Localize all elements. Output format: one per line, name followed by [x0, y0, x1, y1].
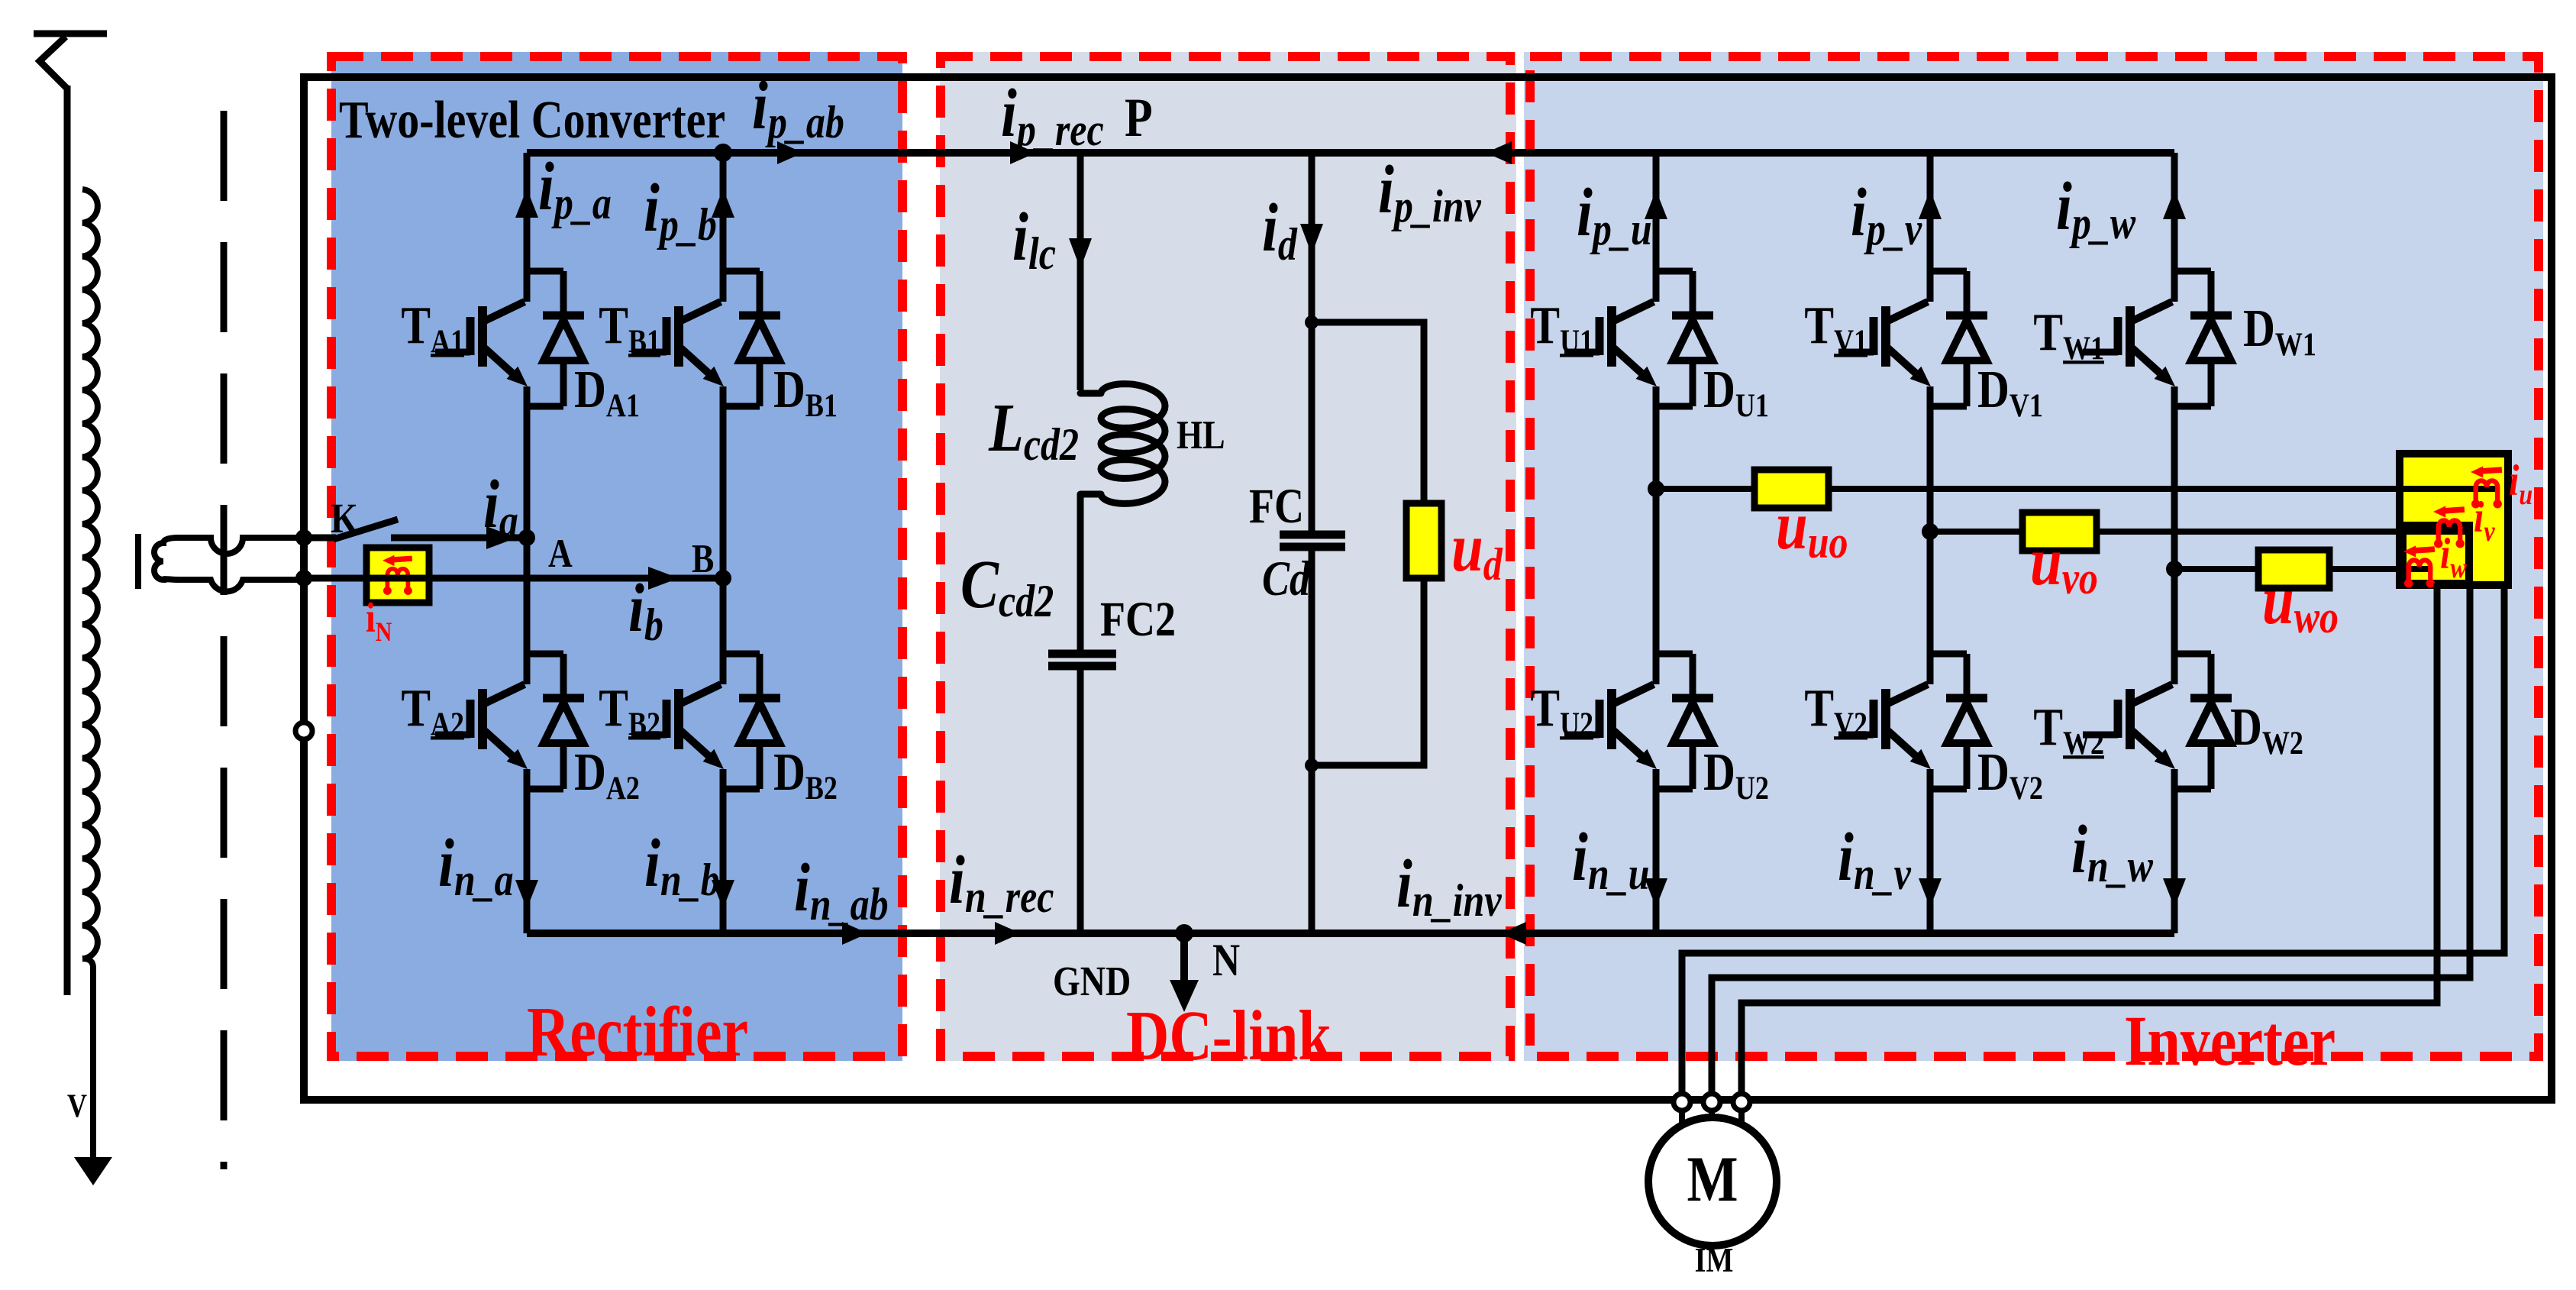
overhead contact wire — [34, 31, 107, 37]
leg B lower wire — [720, 769, 727, 933]
motor wire u — [1682, 585, 2504, 1094]
leg U upper wire — [1653, 153, 1660, 302]
svg-text:FC: FC — [1249, 478, 1304, 533]
leg U middle wire — [1653, 386, 1660, 684]
motor lead w — [1738, 1111, 1745, 1130]
current sensor glyph — [2471, 466, 2502, 508]
diode DW1 — [2174, 271, 2232, 406]
diode DB1 — [723, 271, 780, 406]
leg A middle wire — [524, 386, 531, 684]
leg B middle wire — [720, 386, 727, 684]
motor terminal u — [1674, 1094, 1690, 1111]
motor lead u — [1679, 1111, 1685, 1130]
transistor TV1 — [1838, 302, 1931, 386]
leg V upper wire — [1927, 153, 1934, 302]
open terminal on return rail — [295, 723, 312, 739]
current arrow i_d — [1300, 224, 1323, 254]
svg-text:FC2: FC2 — [1100, 591, 1176, 646]
diode DU1 — [1656, 271, 1713, 406]
current transformer pickup loop — [138, 534, 179, 589]
diode DV1 — [1930, 271, 1987, 406]
transistor TA2 — [435, 684, 528, 769]
node V output — [1922, 523, 1938, 540]
voltage sensor u_d — [1406, 503, 1441, 578]
negative DC rail N — [527, 930, 2174, 937]
motor lead v — [1709, 1111, 1715, 1121]
current arrow i_p_b — [712, 189, 734, 218]
motor terminal v — [1703, 1094, 1720, 1111]
junction on return rail (upper) — [295, 529, 312, 546]
pantograph — [40, 37, 67, 89]
current arrow i_n_inv (leftwards) — [1500, 922, 1526, 945]
transistor TB1 — [631, 302, 724, 386]
current arrow i_p_inv (leftwards) — [1486, 141, 1512, 164]
wire iN sensor to node B — [304, 575, 723, 582]
voltage sensor u_wo — [2258, 550, 2329, 588]
wire switch to node A with current arrow i_a — [391, 535, 527, 542]
capacitor Cd FC — [1280, 531, 1345, 539]
phase w output wire — [2174, 566, 2432, 572]
wire P rail to choke — [1077, 151, 1084, 390]
current arrow i_lc — [1069, 238, 1092, 269]
rectifier region fill — [331, 52, 902, 1061]
wire from winding to earth — [82, 959, 93, 1157]
leg B upper wire — [720, 153, 727, 302]
svg-text:B: B — [692, 536, 714, 581]
current arrow i_p_w — [2163, 190, 2186, 219]
transistor TU2 — [1564, 684, 1657, 769]
diode DA2 — [527, 654, 584, 789]
svg-text:K: K — [331, 495, 358, 542]
harmonic filter choke L_cd2 HL — [1080, 384, 1165, 504]
svg-text:Two-level Converter: Two-level Converter — [339, 90, 725, 149]
red dashed box Inverter — [1530, 57, 2539, 1056]
junction dot u_d top — [1305, 315, 1319, 329]
current sensor glyph — [2403, 545, 2435, 587]
red dashed box DC-link — [941, 57, 1510, 1056]
current arrow i_p_ab — [777, 141, 803, 164]
leg V middle wire — [1927, 386, 1934, 684]
transformer primary winding — [82, 189, 98, 959]
phase v output wire — [1930, 529, 2468, 535]
wire CT to sensor iN (lower) — [177, 580, 304, 591]
wire FC2 to N rail — [1077, 666, 1084, 933]
current arrow i_n_b — [712, 880, 734, 909]
switch K blade — [334, 519, 398, 539]
current arrow i_n_a — [515, 880, 538, 909]
earth arrow V — [74, 1157, 112, 1185]
diode DA1 — [527, 271, 584, 406]
wire choke to capacitor FC2 — [1077, 493, 1084, 654]
svg-text:Cd: Cd — [1262, 551, 1311, 606]
outer return-conductor rectangle — [304, 77, 2552, 1100]
voltage sensor u_uo — [1754, 470, 1829, 508]
leg W upper wire — [2171, 153, 2178, 302]
current arrow i_p_a — [515, 189, 538, 218]
motor M circle — [1648, 1117, 1777, 1246]
motor wire v — [1712, 585, 2470, 1094]
inverter region fill — [1524, 52, 2543, 1061]
svg-text:V: V — [67, 1088, 87, 1124]
transistor TW1 — [2083, 302, 2175, 386]
svg-text:Rectifier: Rectifier — [527, 991, 748, 1071]
leg A lower wire — [524, 769, 531, 933]
junction dot leg B top — [714, 144, 732, 162]
node U output — [1648, 480, 1664, 497]
leg V lower wire — [1927, 769, 1934, 933]
leg A upper wire — [524, 153, 531, 302]
feeder wire down from pantograph — [64, 86, 71, 995]
svg-text:IM: IM — [1695, 1242, 1734, 1280]
current arrow i_n_v — [1919, 878, 1942, 907]
transistor TV2 — [1838, 684, 1931, 769]
voltage sensor u_vo — [2022, 512, 2097, 551]
positive DC rail P — [527, 149, 2174, 157]
transistor TW2 — [2083, 684, 2175, 769]
svg-text:Inverter: Inverter — [2124, 1001, 2336, 1080]
node B — [715, 570, 731, 587]
current arrow i_n_w — [2163, 878, 2186, 907]
node A — [518, 529, 535, 546]
diode DU2 — [1656, 654, 1713, 789]
wire Cd to N rail — [1309, 547, 1315, 933]
capacitor C_cd2 FC2 — [1048, 650, 1116, 658]
svg-text:GND: GND — [1053, 958, 1131, 1004]
ground arrow N — [1180, 933, 1188, 981]
transistor TU1 — [1564, 302, 1657, 386]
diode DV2 — [1930, 654, 1987, 789]
wire P rail to capacitor Cd — [1309, 151, 1315, 535]
red dashed box Rectifier — [331, 57, 902, 1056]
node W output — [2166, 561, 2183, 577]
vertical dashed separator line — [221, 111, 228, 1169]
wire rail to switch — [304, 535, 336, 542]
current sensor box iN — [366, 548, 429, 603]
current arrow i_n_rec — [995, 922, 1021, 945]
svg-text:P: P — [1125, 88, 1153, 148]
current arrow i_p_u — [1645, 190, 1667, 219]
motor wire w — [1742, 584, 2437, 1094]
phase u output wire — [1656, 486, 2497, 492]
junction dot GND node — [1175, 924, 1193, 942]
svg-text:HL: HL — [1177, 412, 1225, 457]
current sensor glyph — [383, 555, 412, 595]
svg-text:M: M — [1687, 1143, 1738, 1215]
transistor TB2 — [631, 684, 724, 769]
current sensor box outer — [2400, 454, 2508, 585]
leg U lower wire — [1653, 769, 1660, 933]
leg W middle wire — [2171, 386, 2178, 684]
transistor TA1 — [435, 302, 528, 386]
current sensor glyph — [2433, 506, 2465, 548]
leg W lower wire — [2171, 769, 2178, 933]
motor terminal w — [1733, 1094, 1750, 1111]
wire u_d sense branch — [1312, 322, 1424, 765]
svg-text:DC-link: DC-link — [1126, 995, 1332, 1075]
svg-text:N: N — [1212, 935, 1240, 985]
current arrow i_p_v — [1919, 190, 1942, 219]
current arrow i_n_u — [1645, 878, 1667, 907]
junction dot u_d bottom — [1305, 758, 1319, 772]
diode DB2 — [723, 654, 780, 789]
current arrow i_n_ab — [842, 922, 868, 945]
diode DW2 — [2174, 654, 2232, 789]
wire CT to switch K (upper) — [177, 538, 304, 554]
current sensor box inner — [2403, 525, 2469, 584]
dc-link region fill — [940, 52, 1516, 1061]
svg-text:A: A — [548, 531, 573, 576]
current arrow i_p_rec — [1010, 141, 1036, 164]
junction on return rail (lower) — [295, 570, 312, 587]
